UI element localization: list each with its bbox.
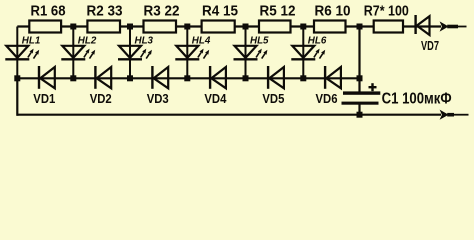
svg-text:HL5: HL5 <box>250 35 269 47</box>
svg-text:VD5: VD5 <box>262 91 284 106</box>
svg-text:VD4: VD4 <box>204 91 227 106</box>
wire C1 bottom lead <box>358 105 360 115</box>
svg-text:R3 22: R3 22 <box>144 2 180 19</box>
svg-text:HL3: HL3 <box>135 35 154 47</box>
svg-text:R5 12: R5 12 <box>260 2 296 19</box>
wire bottom bus <box>17 114 441 116</box>
wire middle line (VD1-VD6 string) <box>17 77 359 79</box>
LED HL6 <box>291 46 325 60</box>
junction rail/HL6 <box>300 24 306 30</box>
diode VD7 <box>416 15 430 35</box>
diode VD2 <box>95 66 111 89</box>
svg-text:R6 10: R6 10 <box>315 2 351 19</box>
LED HL3 <box>118 46 152 60</box>
resistor R4 <box>202 21 235 33</box>
resistor R1 <box>29 21 61 33</box>
wire HL6 column <box>302 27 304 79</box>
terminal arrow bottom right (plug X2) <box>440 110 469 120</box>
LED HL5 <box>234 46 268 60</box>
junction middle line/HL2 <box>70 75 76 81</box>
svg-text:R4 15: R4 15 <box>202 2 238 19</box>
junction middle line/HL3 <box>127 75 133 81</box>
diode VD6 <box>325 66 341 89</box>
junction rail/HL3 <box>127 24 133 30</box>
wire HL4 column <box>186 27 188 79</box>
svg-text:R2 33: R2 33 <box>87 2 123 19</box>
wire left drop (middle line to bottom bus) <box>16 78 18 116</box>
LED HL1 <box>5 46 39 60</box>
resistor R3 <box>144 21 177 33</box>
wire HL2 column <box>72 27 74 79</box>
LED HL4 <box>175 46 209 60</box>
resistor R5 <box>259 21 291 33</box>
diode VD4 <box>210 66 226 89</box>
junction middle line/HL1 <box>14 75 20 81</box>
svg-text:VD2: VD2 <box>90 91 112 106</box>
junction rail/HL4 <box>184 24 190 30</box>
junction middle line/HL5 <box>243 75 249 81</box>
wire top rail <box>17 25 441 27</box>
diode VD1 <box>39 66 55 89</box>
junction middle line/HL6 <box>300 75 306 81</box>
junction bottom bus/C1 <box>357 112 363 118</box>
svg-text:R1 68: R1 68 <box>31 2 66 19</box>
resistor R7 <box>374 21 403 33</box>
diode VD5 <box>268 66 284 89</box>
svg-text:VD7: VD7 <box>421 39 439 53</box>
junction rail/C1 branch <box>357 24 363 30</box>
svg-text:C1 100мкФ: C1 100мкФ <box>382 90 452 107</box>
resistor R6 <box>314 21 346 33</box>
terminal arrow top right (plug X1) <box>440 21 467 31</box>
svg-text:VD3: VD3 <box>147 91 169 106</box>
junction rail/HL2 <box>70 24 76 30</box>
wire HL1 column <box>16 27 18 79</box>
wire HL5 column <box>245 27 247 79</box>
svg-text:HL2: HL2 <box>78 35 97 47</box>
wire C1 branch column (rail to C1 top plate) <box>358 27 360 92</box>
junction middle line/HL4 <box>184 75 190 81</box>
svg-text:VD1: VD1 <box>33 91 55 106</box>
C1 polarity plus sign <box>369 83 377 91</box>
LED HL2 <box>61 46 95 60</box>
svg-text:VD6: VD6 <box>316 91 338 106</box>
capacitor C1 <box>342 91 381 104</box>
svg-text:HL4: HL4 <box>192 35 211 47</box>
junction middle line/C1 <box>357 75 363 81</box>
svg-text:HL1: HL1 <box>22 35 41 47</box>
wire HL3 column <box>129 27 131 79</box>
resistor R2 <box>87 21 120 33</box>
diode VD3 <box>152 66 168 89</box>
junction rail/HL5 <box>243 24 249 30</box>
svg-text:HL6: HL6 <box>308 35 327 47</box>
svg-text:R7* 100: R7* 100 <box>364 2 409 19</box>
